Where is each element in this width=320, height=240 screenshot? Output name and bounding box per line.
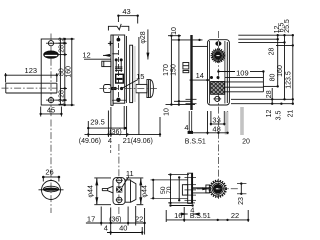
gray band below fig3 bbox=[225, 112, 229, 135]
fig5 bottom ext stubs bbox=[165, 210, 167, 222]
svg-text:70: 70 bbox=[166, 186, 173, 194]
svg-text:12: 12 bbox=[58, 37, 65, 45]
svg-text:21: 21 bbox=[287, 110, 294, 118]
horizontal centerline fig5 bbox=[193, 188, 238, 190]
spindle bars right bbox=[225, 76, 264, 78]
hatch block bbox=[211, 82, 225, 95]
svg-text:4: 4 bbox=[104, 223, 108, 232]
svg-text:33: 33 bbox=[212, 116, 220, 125]
svg-text:12: 12 bbox=[58, 98, 65, 106]
horizontal centerline bbox=[39, 189, 64, 191]
bottom screw hole bbox=[48, 98, 53, 103]
dim line y=205.5 bbox=[171, 205, 193, 207]
centerline dots bbox=[111, 87, 114, 90]
ext lines fig5 left bbox=[151, 179, 189, 181]
lock case F3 bbox=[208, 40, 230, 105]
door break line top bbox=[108, 24, 128, 31]
svg-text:109: 109 bbox=[236, 68, 249, 77]
hub box left bbox=[182, 185, 187, 195]
dim 45 bbox=[40, 107, 42, 117]
thumbturn cap bbox=[147, 80, 154, 98]
svg-text:12: 12 bbox=[82, 50, 90, 59]
spindle square bbox=[117, 187, 122, 192]
screw bottom bbox=[117, 197, 122, 202]
bar rivet dots bbox=[210, 76, 213, 79]
svg-text:29.5: 29.5 bbox=[90, 118, 105, 127]
svg-text:43: 43 bbox=[122, 7, 130, 16]
bottom screw F3 bbox=[215, 96, 220, 101]
fig3 right ext lines bbox=[238, 34, 293, 36]
svg-text:48: 48 bbox=[212, 124, 220, 133]
plus tick mark bbox=[108, 42, 113, 44]
stem bbox=[193, 187, 210, 189]
svg-text:φ28: φ28 bbox=[140, 31, 147, 43]
fig4b bottom ext lines bbox=[100, 207, 102, 226]
svg-text:80: 80 bbox=[270, 74, 277, 82]
long centerline fig2->fig4b bbox=[118, 144, 120, 217]
cylinder bump left bbox=[104, 85, 111, 93]
svg-text:25.5: 25.5 bbox=[284, 19, 291, 33]
bottom screw side bbox=[116, 98, 120, 102]
top screw hole bbox=[48, 41, 53, 46]
fig1 right extension lines bbox=[60, 38, 74, 40]
fig3 below-case ext lines bbox=[207, 111, 209, 135]
follower square bbox=[116, 74, 124, 83]
screw top bbox=[117, 178, 122, 183]
top screw side bbox=[117, 38, 121, 42]
long centerline fig1->fig4 bbox=[50, 120, 52, 214]
screw centerline bbox=[117, 36, 119, 102]
svg-text:28: 28 bbox=[269, 48, 276, 56]
svg-text:160: 160 bbox=[65, 66, 72, 78]
latch boxes left bbox=[183, 63, 189, 70]
dim 23 ticks bbox=[237, 183, 246, 185]
plate ticks bbox=[185, 176, 197, 178]
centerline F3 vertical bbox=[217, 31, 219, 199]
fig3 right chains bbox=[271, 88, 273, 104]
fig4b dim row 1 bbox=[86, 222, 145, 224]
cylinder step right bbox=[125, 180, 130, 202]
svg-text:(49.06): (49.06) bbox=[131, 138, 153, 145]
knob collar bbox=[206, 185, 210, 193]
dim line B bbox=[170, 175, 172, 203]
svg-text:3.5: 3.5 bbox=[276, 111, 283, 121]
rose plate edge fig5 bbox=[188, 173, 193, 203]
knurled thumbturn wheel bbox=[211, 49, 224, 62]
svg-text:φ44: φ44 bbox=[141, 185, 148, 197]
svg-text:10: 10 bbox=[171, 27, 178, 35]
svg-text:26: 26 bbox=[45, 168, 53, 177]
svg-text:123.5: 123.5 bbox=[286, 71, 293, 89]
svg-text:80: 80 bbox=[58, 68, 65, 76]
horizontal centerline fig2 bbox=[100, 88, 158, 90]
latch tip left bbox=[102, 61, 111, 66]
latch wedge left bbox=[102, 186, 113, 193]
phi44 left dim bbox=[94, 177, 111, 179]
svg-text:40: 40 bbox=[119, 223, 127, 232]
door gray strip bbox=[133, 46, 136, 102]
knob cone right bbox=[131, 181, 136, 203]
rose strip bbox=[130, 45, 133, 102]
svg-text:28: 28 bbox=[58, 45, 65, 53]
svg-text:170: 170 bbox=[163, 64, 170, 76]
svg-text:17: 17 bbox=[87, 214, 95, 223]
svg-text:12: 12 bbox=[266, 110, 273, 118]
mechanism posts bbox=[115, 58, 118, 61]
svg-text:28: 28 bbox=[58, 90, 65, 98]
oval screw bbox=[216, 42, 221, 46]
svg-text:23: 23 bbox=[238, 197, 245, 205]
svg-text:11: 11 bbox=[126, 169, 134, 178]
cylinder keyhole oval bbox=[44, 51, 59, 58]
faceplate edge F3 bbox=[190, 35, 192, 110]
svg-text:(49.06): (49.06) bbox=[79, 138, 101, 145]
dim 26 bbox=[42, 177, 44, 182]
fig1 chain 160 bbox=[71, 39, 73, 105]
svg-text:22: 22 bbox=[231, 211, 239, 220]
fig2 bottom: ext lines bbox=[107, 111, 109, 138]
dim 109 bbox=[218, 71, 235, 73]
knob end view bbox=[210, 181, 227, 198]
faceplate F1 bbox=[41, 39, 60, 105]
centerline vertical fig1 bbox=[50, 34, 52, 118]
svg-text:4: 4 bbox=[108, 136, 112, 145]
gray band right below fig3 bbox=[240, 107, 244, 135]
svg-text:28: 28 bbox=[266, 90, 273, 98]
latch centerline bbox=[2, 87, 58, 89]
fig4b dim row 2 bbox=[107, 232, 142, 234]
cylinder circle bbox=[42, 181, 61, 200]
svg-text:45: 45 bbox=[47, 105, 55, 114]
keyhole lens bbox=[43, 186, 58, 192]
latch bar bbox=[6, 82, 57, 84]
case inner back line bbox=[125, 36, 127, 103]
short dash below fig2 dims bbox=[110, 145, 112, 154]
dim line C bbox=[178, 177, 180, 200]
faceplate F2 bbox=[111, 35, 113, 105]
lock case side bbox=[113, 35, 125, 103]
svg-text:B.S.51: B.S.51 bbox=[185, 139, 206, 146]
plate ticks bbox=[186, 98, 197, 100]
dim 4 plate thickness fig3 bbox=[188, 111, 190, 131]
svg-text:B: B bbox=[190, 213, 195, 220]
svg-text:4: 4 bbox=[184, 123, 188, 132]
door right face bbox=[138, 37, 140, 84]
plate-case connect bbox=[192, 45, 207, 47]
escutcheon bottom view bbox=[113, 178, 125, 205]
svg-text:123: 123 bbox=[25, 66, 38, 75]
svg-text:22: 22 bbox=[135, 214, 143, 223]
svg-text:.S.51: .S.51 bbox=[194, 213, 210, 220]
fig2 bottom dim line bbox=[85, 133, 161, 135]
thumbturn stem right bbox=[136, 84, 147, 92]
svg-text:14: 14 bbox=[196, 71, 204, 80]
svg-text:16: 16 bbox=[174, 211, 182, 220]
svg-text:10: 10 bbox=[163, 108, 170, 116]
svg-text:150: 150 bbox=[170, 64, 177, 76]
svg-text:20: 20 bbox=[242, 139, 250, 146]
svg-text:160: 160 bbox=[277, 65, 284, 77]
phi44 right dim bbox=[126, 177, 143, 179]
svg-text:φ44: φ44 bbox=[88, 185, 95, 197]
dim line A bbox=[152, 180, 154, 198]
fig1 chain 12/28/80/28/12 bbox=[64, 39, 66, 105]
fig5 bottom dim line bbox=[166, 219, 248, 221]
dim 123 bbox=[5, 73, 7, 83]
